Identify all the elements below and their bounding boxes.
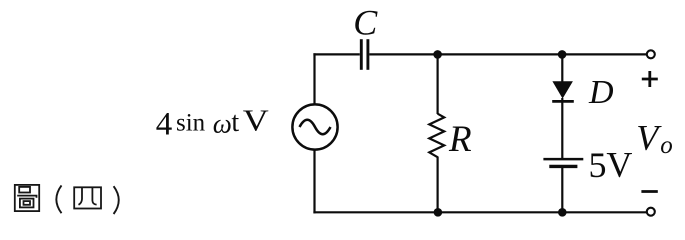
junction: bottom node at R branch bbox=[434, 208, 443, 217]
label 5V (battery value) bbox=[589, 145, 633, 186]
label: 4 sin wt V (source value) bbox=[156, 103, 270, 143]
junction: bottom node at battery branch bbox=[558, 208, 567, 217]
caption 圖（四） : character 四 drawn as strokes bbox=[74, 187, 101, 208]
voltage source VS: sine wave symbol bbox=[300, 120, 331, 134]
svg-text:C: C bbox=[353, 3, 378, 43]
svg-text:t: t bbox=[231, 107, 239, 138]
voltage source VS: AC source circle (4 sin wt V) bbox=[292, 104, 337, 149]
caption 圖（四） : character 圖 drawn as strokes bbox=[15, 185, 39, 211]
wire: right branch upper (top node to diode D) bbox=[561, 54, 563, 82]
svg-text:V: V bbox=[243, 103, 270, 138]
junction: top node between C and R bbox=[433, 50, 442, 59]
svg-text:R: R bbox=[448, 119, 472, 160]
capacitor C (two vertical plates) bbox=[361, 39, 368, 70]
svg-text:D: D bbox=[588, 74, 614, 111]
label Vo (output voltage) bbox=[636, 118, 673, 159]
junction: top node at diode branch bbox=[558, 50, 567, 59]
output terminal + (open circle, top right) bbox=[647, 50, 655, 58]
diode D: cathode bar bbox=[552, 100, 574, 103]
svg-text:V: V bbox=[606, 145, 632, 185]
label - (output polarity minus) bbox=[641, 190, 657, 193]
wire: left vertical lower (AC source to bottom wire) bbox=[313, 149, 315, 213]
label + (output polarity plus) bbox=[642, 71, 658, 87]
battery 5V: short negative plate bbox=[549, 165, 577, 168]
wire: top horizontal segment (capacitor to + terminal) bbox=[369, 53, 646, 55]
svg-text:ω: ω bbox=[213, 109, 232, 139]
svg-text:4: 4 bbox=[156, 107, 173, 143]
svg-text:5: 5 bbox=[589, 145, 607, 185]
svg-text:sin: sin bbox=[176, 110, 206, 137]
wire: right branch middle (diode cathode to battery) bbox=[561, 98, 563, 158]
wire: middle branch upper (top node to resistor R) bbox=[437, 54, 439, 114]
wire: top-left horizontal segment (source top to capacitor) bbox=[313, 53, 359, 55]
svg-text:V: V bbox=[636, 118, 662, 158]
battery 5V: long positive plate bbox=[543, 158, 583, 161]
wire: left vertical upper (corner down to AC source) bbox=[313, 53, 315, 105]
wire: right branch lower (battery to bottom node) bbox=[561, 168, 563, 213]
wire: bottom horizontal (source to - terminal) bbox=[313, 211, 646, 213]
wire: middle branch lower (resistor R to bottom node) bbox=[437, 157, 439, 213]
caption 圖（四） : right full-width parenthesis bbox=[114, 186, 119, 214]
svg-text:o: o bbox=[660, 132, 673, 159]
resistor R (vertical zigzag) bbox=[429, 114, 444, 158]
diode D: anode triangle (points down) bbox=[552, 81, 573, 98]
caption 圖（四） : left full-width parenthesis bbox=[56, 185, 61, 213]
output terminal - (open circle, bottom right) bbox=[647, 208, 655, 216]
